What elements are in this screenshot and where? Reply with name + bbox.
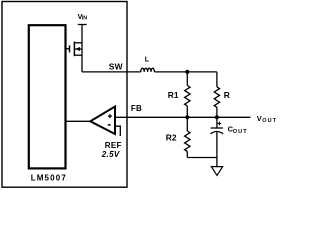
svg-text:LM5007: LM5007: [31, 174, 67, 183]
svg-text:FB: FB: [131, 104, 142, 113]
svg-text:R2: R2: [166, 132, 177, 142]
svg-text:2.5V: 2.5V: [101, 150, 120, 159]
svg-text:R1: R1: [168, 90, 179, 100]
svg-text:OUT: OUT: [233, 129, 248, 135]
svg-text:REF: REF: [105, 141, 122, 150]
svg-text:V: V: [257, 114, 262, 123]
svg-text:SW: SW: [109, 61, 123, 71]
svg-text:IN: IN: [82, 15, 87, 21]
svg-text:L: L: [145, 57, 150, 64]
svg-text:OUT: OUT: [262, 118, 277, 124]
svg-text:R: R: [224, 90, 230, 100]
